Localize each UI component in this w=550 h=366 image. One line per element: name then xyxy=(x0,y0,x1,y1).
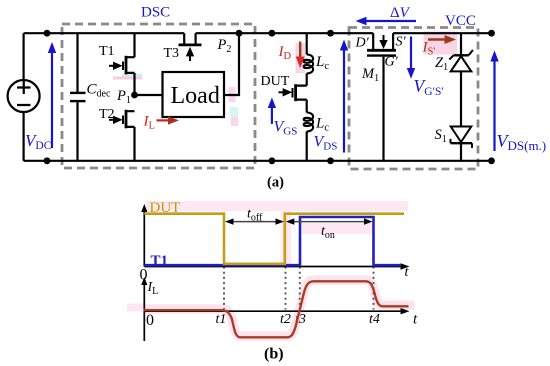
svg-text:ΔV: ΔV xyxy=(390,5,411,21)
dotted line t4 xyxy=(373,267,375,310)
transistor T3 xyxy=(179,33,202,61)
svg-text:T1: T1 xyxy=(99,44,115,59)
DSC dashed box xyxy=(62,24,255,168)
svg-text:0: 0 xyxy=(146,312,154,329)
svg-text:Load: Load xyxy=(171,83,220,109)
pink smudge at DUT rise xyxy=(281,211,292,266)
VDS arrow xyxy=(340,40,348,153)
node dot bottom-right xyxy=(488,157,495,164)
artifact smudge right of Load xyxy=(229,87,239,126)
VGS arrow xyxy=(268,98,276,124)
svg-text:t4: t4 xyxy=(369,312,380,327)
transistor T2 xyxy=(109,110,135,161)
svg-text:t2: t2 xyxy=(280,312,291,327)
VDC arrow xyxy=(48,42,56,148)
svg-text:DUT: DUT xyxy=(261,74,290,89)
transistor DUT xyxy=(279,84,307,101)
capacitor Cdec xyxy=(70,33,86,161)
diode S1 xyxy=(451,127,473,161)
ID arrow xyxy=(296,42,305,69)
svg-text:(a): (a) xyxy=(267,175,284,191)
IS' highlight xyxy=(424,32,458,55)
voltage source VDC xyxy=(8,33,40,161)
dotted line t2 xyxy=(285,267,287,310)
svg-text:G′: G′ xyxy=(385,55,399,70)
transistor M1 xyxy=(367,33,396,161)
VDS(m.) arrow xyxy=(490,51,498,152)
transistor T1 xyxy=(109,33,135,95)
wire coil to DUT xyxy=(306,73,308,85)
pink band above DUT high level xyxy=(146,201,408,211)
IS' arrow xyxy=(428,35,456,44)
wire: top rail right segment xyxy=(393,32,491,34)
svg-text:T1: T1 xyxy=(151,253,169,269)
svg-text:DUT: DUT xyxy=(150,200,181,216)
svg-text:T3: T3 xyxy=(164,46,180,61)
axis 1 vertical xyxy=(141,204,147,267)
wire: top rail middle segment xyxy=(196,32,374,34)
DUT trace orange xyxy=(144,214,404,264)
svg-text:VCC: VCC xyxy=(445,13,476,29)
IL curve red xyxy=(144,281,409,337)
node dot top-left xyxy=(44,30,51,37)
svg-text:(b): (b) xyxy=(264,346,284,363)
node P2 xyxy=(236,30,243,37)
node P1 xyxy=(131,92,138,99)
inductor Lc lower xyxy=(304,113,313,132)
VG'S' arrow xyxy=(407,37,415,79)
axis 2 vertical xyxy=(141,277,147,341)
svg-text:t1: t1 xyxy=(216,312,227,327)
wire Load to P2 xyxy=(224,33,239,95)
pink band left stub xyxy=(127,304,144,312)
wire: top rail left segment xyxy=(24,32,185,34)
node dot mid-right bottom xyxy=(327,157,334,164)
wire DUT branch top xyxy=(306,33,308,54)
t_off arrow xyxy=(225,218,284,224)
node dot mid-left top xyxy=(269,30,276,37)
wire DUT to lower coil xyxy=(306,100,308,113)
deltaV arrow xyxy=(356,17,417,25)
axis 1 horizontal xyxy=(144,263,409,269)
node dot bottom-left xyxy=(44,157,51,164)
Load box xyxy=(163,72,225,117)
node dot mid-right top xyxy=(327,30,334,37)
node dot top-right xyxy=(488,30,495,37)
zener Z1 xyxy=(449,33,473,126)
ID arrow highlight xyxy=(296,43,306,73)
pink halo along IL curve xyxy=(144,280,415,336)
pink patch under t_on xyxy=(302,223,372,234)
IL arrow xyxy=(157,116,180,124)
artifact smudge near T1 xyxy=(113,74,142,80)
t_on arrow xyxy=(286,218,373,224)
dotted line t3 xyxy=(299,267,301,310)
wire: bottom rail xyxy=(24,160,492,162)
svg-text:T2: T2 xyxy=(99,107,115,122)
svg-text:D′: D′ xyxy=(355,36,370,51)
svg-text:DSC: DSC xyxy=(141,5,170,21)
svg-text:S′: S′ xyxy=(396,35,407,50)
dotted line t1 xyxy=(223,267,225,310)
inductor Lc upper xyxy=(304,55,313,74)
VCC dashed box xyxy=(349,28,478,170)
wire P1 to Load xyxy=(135,94,163,96)
wire lower coil to bottom rail xyxy=(306,131,308,160)
node dot mid-left bottom xyxy=(269,157,276,164)
axis 2 horizontal xyxy=(144,308,409,314)
T1 trace blue xyxy=(144,217,401,265)
